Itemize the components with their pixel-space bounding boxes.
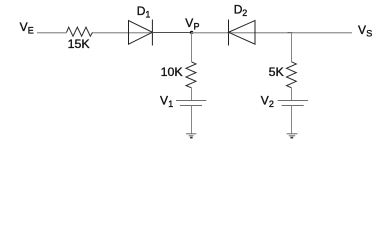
label V1 [160,93,173,109]
svg-text:1: 1 [145,9,150,19]
svg-text:E: E [28,26,34,36]
svg-text:2: 2 [242,8,247,18]
svg-text:5K: 5K [269,65,285,79]
label V2 [261,93,274,109]
ground under V2 [287,134,298,138]
svg-text:V: V [160,93,168,107]
ground under V1 [186,134,196,138]
svg-text:10K: 10K [161,65,184,79]
wire resistor to diode D1 [93,32,153,34]
svg-text:15K: 15K [68,37,91,51]
diode D2 triangle [229,21,256,45]
wire battery V2 to ground [291,106,293,134]
wire 5K to battery V2 [291,88,293,100]
wire right node down to resistor 5K [291,33,293,62]
wire battery V1 to ground [191,106,193,134]
node at VS branch (darker T intersection) [288,32,293,34]
svg-text:V: V [185,16,193,30]
battery V1 short plate [180,105,202,107]
node VP junction dot [190,31,193,34]
battery V1 long plate [176,100,206,102]
svg-text:V: V [358,23,366,37]
svg-text:S: S [366,29,372,39]
resistor 5K zigzag [287,62,297,88]
svg-text:V: V [261,93,269,107]
wire D1 to node VP (dark) [152,32,191,34]
label VS [358,23,372,39]
svg-text:2: 2 [269,99,274,109]
svg-text:V: V [20,20,28,34]
wire through D2 to VS [229,32,353,34]
svg-text:P: P [194,21,200,31]
diode D2 cathode bar [228,20,230,46]
svg-text:1: 1 [168,99,173,109]
diode D1 cathode bar [151,20,153,46]
resistor 10K zigzag [186,62,196,88]
label D1 [137,4,151,19]
label VP [185,16,199,32]
battery V2 short plate [282,105,304,107]
wire node VP down to resistor 10K [191,33,193,62]
wire VE to resistor 15K [37,32,67,34]
wire node VP to diode D2 [191,32,228,34]
label D2 [234,3,248,18]
label VE [20,20,34,36]
wire 10K to battery V1 [191,88,193,100]
diode D1 triangle [129,21,153,45]
battery V2 long plate [278,100,309,102]
resistor 15K zigzag [67,27,93,36]
